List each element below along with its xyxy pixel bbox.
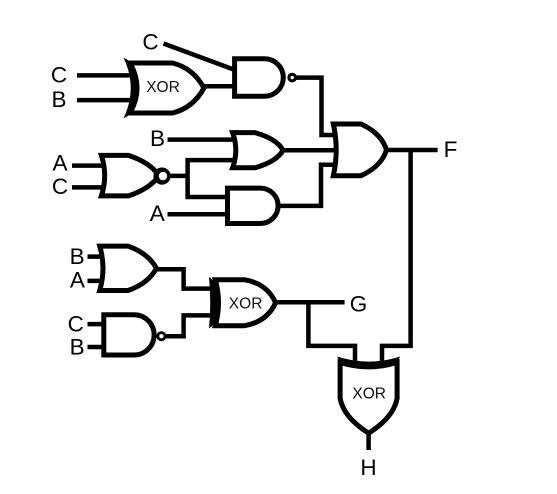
wire B to OR U3 <box>168 137 238 142</box>
NAND gate U2 <box>235 59 297 97</box>
wire NAND U8 output to XOR U9 bottom input <box>165 315 217 336</box>
wire C diagonal to NAND U2 top input <box>164 44 236 71</box>
bubble U8 <box>156 331 166 341</box>
svg-text:F: F <box>444 137 458 162</box>
wire C to NOR U5 <box>72 185 108 190</box>
svg-text:B: B <box>51 87 66 112</box>
wire C to NAND U8 <box>88 322 109 327</box>
wire OR U6 output to F <box>384 148 438 153</box>
svg-text:B: B <box>70 244 85 269</box>
NOR gate U5 (inputs A,C) <box>101 155 170 196</box>
wire B to XOR U1 <box>77 98 134 103</box>
svg-text:G: G <box>350 292 368 317</box>
XOR gate U10 (vertical, output H) <box>337 357 400 434</box>
wire NOR U5 output branch <box>166 158 237 199</box>
wire XOR U9 output to G <box>274 300 345 305</box>
wire NAND U2 output to OR U6 top input <box>296 78 336 135</box>
wire OR U3 output to OR U6 middle input <box>281 148 338 153</box>
svg-text:XOR: XOR <box>146 79 180 96</box>
wire AND U4 output to OR U6 bottom input <box>278 165 336 206</box>
svg-text:B: B <box>150 126 165 151</box>
svg-text:C: C <box>52 174 68 199</box>
wire XOR U1 output to NAND U2 bottom input <box>201 84 236 89</box>
wire G node down to XOR U10 left input <box>308 300 355 366</box>
wire F node down to XOR U10 right input <box>382 148 411 366</box>
OR gate U7 (inputs B,A) <box>100 246 157 290</box>
svg-text:A: A <box>150 201 165 226</box>
svg-text:C: C <box>68 311 84 336</box>
wire OR U7 output to XOR U9 top input <box>154 269 217 288</box>
svg-text:C: C <box>51 62 67 87</box>
bubble U2 <box>287 73 297 83</box>
wire C to XOR U1 <box>77 73 134 78</box>
wire A to NOR U5 <box>72 163 108 168</box>
svg-text:C: C <box>142 29 158 54</box>
NAND gate U8 (inputs C,B) <box>104 315 167 355</box>
OR gate U3 (input B) <box>233 133 283 168</box>
svg-text:A: A <box>70 268 85 293</box>
wire XOR U10 output to H <box>366 431 371 450</box>
wire A to OR U7 <box>88 279 107 284</box>
svg-text:XOR: XOR <box>229 295 263 312</box>
wire A to AND U4 <box>168 212 232 217</box>
AND gate U4 (input A) <box>228 188 279 223</box>
bubble U5 <box>153 168 170 185</box>
svg-text:B: B <box>70 334 85 359</box>
OR gate U6 (3-input, output F) <box>333 124 386 176</box>
wire B to NAND U8 <box>88 345 109 350</box>
XOR gate U9 (output G) <box>209 277 276 329</box>
svg-text:H: H <box>360 455 376 480</box>
wire B to OR U7 <box>88 254 107 259</box>
svg-text:XOR: XOR <box>352 386 386 403</box>
XOR gate U1 (inputs C,B) <box>124 58 205 119</box>
svg-text:A: A <box>52 151 67 176</box>
